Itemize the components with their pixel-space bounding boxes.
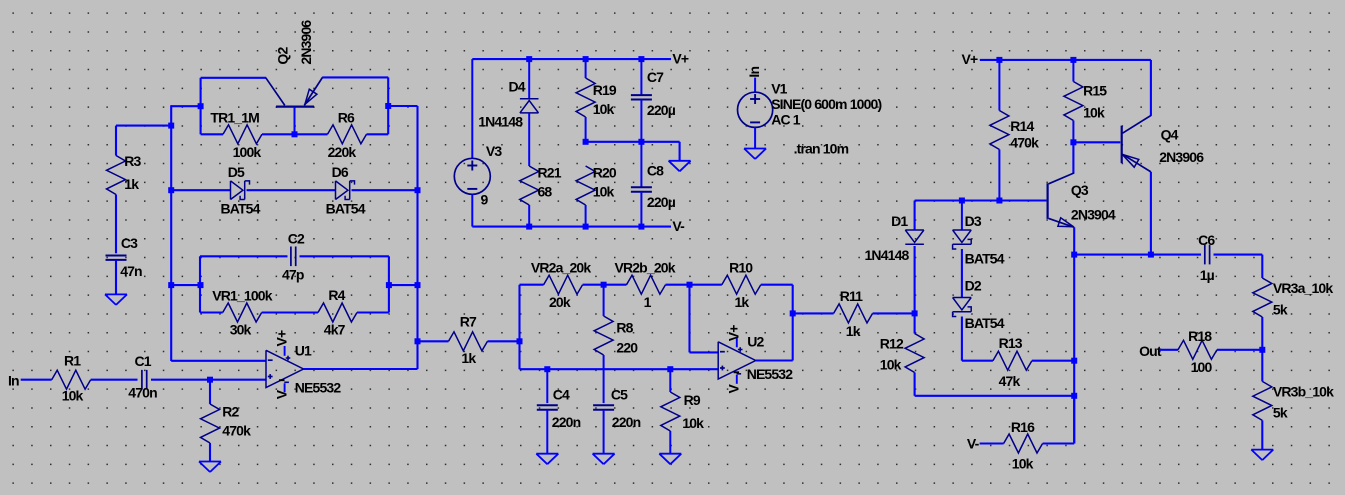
svg-text:9: 9 (481, 191, 489, 207)
svg-text:D5: D5 (228, 164, 245, 180)
svg-text:BAT54: BAT54 (965, 251, 1005, 267)
svg-text:D3: D3 (965, 213, 982, 229)
wire box left (199, 256, 201, 312)
wire (1159, 349, 1178, 351)
resistor R10 (722, 259, 761, 310)
wire (1072, 142, 1074, 173)
wire (690, 351, 719, 353)
wire (793, 312, 834, 314)
wire (300, 255, 389, 257)
ground (744, 149, 766, 160)
svg-text:BAT54: BAT54 (221, 201, 261, 217)
resistor R14 (990, 60, 1039, 201)
svg-text:R4: R4 (328, 287, 345, 303)
junction (996, 198, 1002, 204)
capacitor C2 (282, 231, 305, 283)
junction (168, 187, 174, 193)
svg-text:C4: C4 (553, 387, 570, 403)
wire (914, 201, 916, 231)
resistor R6 (328, 110, 367, 160)
wire (262, 311, 318, 313)
svg-text:R8: R8 (616, 319, 633, 335)
svg-text:220: 220 (616, 340, 638, 356)
svg-text:VR2b_20k: VR2b_20k (615, 259, 676, 275)
wire (21, 379, 52, 381)
resistor R21 (520, 165, 562, 227)
wire (1150, 172, 1152, 255)
junction (583, 224, 589, 230)
voltage source V3 (454, 59, 502, 227)
wire (418, 340, 449, 342)
junction (1259, 347, 1265, 353)
svg-text:220n: 220n (552, 414, 581, 430)
resistor R1 (52, 353, 91, 404)
junction (1070, 57, 1076, 63)
svg-text:47k: 47k (999, 373, 1021, 389)
junction (790, 310, 796, 316)
svg-text:.tran 10m: .tran 10m (794, 141, 849, 157)
wire (915, 199, 1047, 201)
wire (961, 317, 963, 361)
wire (1261, 420, 1263, 449)
wire (115, 260, 117, 295)
svg-text:4k7: 4k7 (324, 321, 346, 337)
wire (1217, 349, 1262, 351)
transistor Q4 2N3906 (1122, 116, 1205, 172)
svg-text:30k: 30k (230, 321, 252, 337)
ground (659, 454, 681, 465)
capacitor C3 (106, 235, 143, 279)
capacitor C6 (1198, 232, 1215, 283)
svg-text:2N3906: 2N3906 (298, 20, 314, 65)
wire (761, 284, 793, 286)
resistor R20 (576, 165, 617, 227)
wire (387, 77, 389, 134)
junction (638, 139, 644, 145)
junction (526, 224, 532, 230)
diode D1 1N4148 (865, 213, 924, 263)
wire (1073, 396, 1075, 444)
svg-text:47p: 47p (282, 267, 304, 283)
ground (669, 161, 691, 172)
svg-text:47n: 47n (120, 263, 142, 279)
junction (583, 56, 589, 62)
svg-text:R13: R13 (999, 335, 1023, 351)
svg-text:NE5532: NE5532 (295, 380, 342, 396)
wire (200, 311, 223, 313)
svg-text:V-: V- (672, 218, 685, 234)
svg-text:D2: D2 (965, 278, 982, 294)
wire (915, 395, 1075, 397)
svg-text:C2: C2 (288, 231, 305, 247)
wire (690, 284, 722, 286)
svg-text:C1: C1 (135, 353, 152, 369)
capacitor C8 (631, 142, 676, 227)
wire filter bottom rail (520, 368, 719, 370)
svg-text:68: 68 (538, 184, 553, 200)
junction (687, 282, 693, 288)
resistor R2 (201, 403, 252, 443)
svg-text:U2: U2 (747, 334, 764, 350)
junction (198, 282, 204, 288)
svg-text:5k: 5k (1273, 405, 1288, 421)
resistor VR3a_10k (1253, 278, 1334, 318)
ground (199, 462, 221, 473)
wire (666, 284, 690, 286)
resistor TR1_1M (210, 110, 262, 160)
svg-text:V+: V+ (962, 51, 978, 67)
wire (1032, 360, 1074, 362)
wire V- rail (472, 226, 671, 228)
svg-text:R19: R19 (593, 82, 617, 98)
svg-text:1: 1 (644, 294, 652, 310)
junction (1070, 139, 1076, 145)
junction (583, 139, 589, 145)
spice directive .tran (794, 141, 849, 157)
resistor R19 (576, 59, 617, 142)
wire (116, 125, 172, 127)
net label V+ right (962, 51, 978, 67)
wire (388, 105, 417, 107)
diode D2 BAT54 (953, 278, 1005, 331)
svg-text:10k: 10k (593, 101, 615, 117)
net label In at V1 (746, 67, 762, 78)
wire (200, 78, 202, 135)
svg-text:20k: 20k (549, 294, 571, 310)
wire (1214, 254, 1263, 256)
svg-text:R3: R3 (124, 153, 141, 169)
capacitor C7 (631, 59, 676, 142)
svg-text:V-: V- (967, 435, 980, 451)
svg-text:C3: C3 (121, 235, 138, 251)
svg-text:VR3a_10k: VR3a_10k (1273, 280, 1333, 296)
resistor R18 (1178, 328, 1217, 375)
svg-text:Q2: Q2 (274, 47, 290, 65)
svg-text:10k: 10k (593, 184, 615, 200)
wire (583, 284, 604, 286)
svg-text:10k: 10k (880, 356, 902, 372)
wire (961, 249, 963, 298)
wire (262, 133, 295, 135)
svg-text:V+: V+ (273, 330, 289, 346)
junction (1071, 358, 1077, 364)
junction (638, 56, 644, 62)
svg-text:1k: 1k (461, 350, 476, 366)
svg-text:TR1_1M: TR1_1M (210, 110, 259, 126)
svg-text:V3: V3 (486, 143, 502, 159)
svg-text:220n: 220n (612, 414, 641, 430)
svg-text:Q4: Q4 (1161, 126, 1179, 142)
resistor R3 (107, 153, 142, 195)
resistor R4 (318, 287, 357, 338)
junction (168, 282, 174, 288)
wire U2 output (756, 359, 793, 361)
wire (352, 189, 418, 191)
wire (679, 142, 681, 161)
junction (1148, 252, 1154, 258)
resistor R16 (1004, 419, 1043, 471)
svg-text:V+: V+ (726, 325, 742, 341)
wire (209, 443, 211, 462)
wire (914, 246, 916, 313)
svg-text:5k: 5k (1273, 302, 1288, 318)
svg-text:C8: C8 (647, 162, 664, 178)
diode D5 BAT54 (221, 164, 261, 216)
op-amp U2 NE5532 (718, 325, 793, 394)
svg-text:BAT54: BAT54 (326, 201, 366, 217)
svg-text:220k: 220k (328, 144, 357, 160)
svg-text:1N4148: 1N4148 (865, 247, 910, 263)
junction (996, 57, 1002, 63)
svg-text:100k: 100k (233, 144, 262, 160)
svg-text:AC 1: AC 1 (771, 112, 801, 128)
wire (792, 285, 794, 361)
svg-text:2N3904: 2N3904 (1071, 206, 1116, 222)
svg-text:2N3906: 2N3906 (1159, 149, 1204, 165)
junction (1071, 393, 1077, 399)
junction (912, 310, 918, 316)
svg-text:470k: 470k (1010, 134, 1039, 150)
wire (1261, 317, 1263, 381)
transistor Q3 2N3904 (1048, 173, 1116, 227)
wire (170, 105, 172, 361)
svg-text:C5: C5 (611, 387, 628, 403)
junction (517, 338, 523, 344)
junction node Q2-base-left (198, 103, 204, 109)
resistor VR2a_20k (531, 259, 591, 310)
capacitor C5 (593, 387, 641, 454)
resistor VR2b_20k (615, 259, 676, 310)
wire V+ rail (472, 58, 671, 60)
svg-text:10k: 10k (62, 387, 84, 403)
wire (1074, 254, 1151, 256)
voltage source V1 (738, 78, 882, 149)
svg-text:R6: R6 (338, 110, 355, 126)
net label In (input) (8, 372, 19, 388)
resistor VR3b_10k (1253, 381, 1334, 420)
svg-text:R18: R18 (1188, 328, 1212, 344)
junction (544, 366, 550, 372)
svg-text:220µ: 220µ (647, 194, 676, 210)
svg-text:In: In (8, 372, 19, 388)
svg-text:R9: R9 (684, 392, 701, 408)
svg-text:R12: R12 (880, 335, 904, 351)
wire (520, 284, 544, 286)
junction (415, 338, 421, 344)
svg-text:SINE(0 600m 1000): SINE(0 600m 1000) (771, 96, 881, 112)
wire (518, 285, 520, 370)
resistor R12 (880, 334, 924, 373)
svg-text:1k: 1k (846, 323, 861, 339)
wire (357, 311, 389, 313)
capacitor C4 (537, 369, 581, 454)
capacitor C1 (128, 353, 157, 401)
junction (601, 282, 607, 288)
net label Out (1139, 343, 1162, 359)
svg-text:R15: R15 (1083, 83, 1107, 99)
junction Q2 base (292, 131, 298, 137)
svg-text:R1: R1 (64, 353, 81, 369)
svg-text:BAT54: BAT54 (965, 315, 1005, 331)
svg-text:R10: R10 (729, 259, 753, 275)
wire Q3 emitter vertical (1073, 227, 1075, 443)
svg-text:V1: V1 (771, 80, 787, 96)
svg-text:Out: Out (1139, 343, 1162, 359)
svg-text:D4: D4 (509, 79, 526, 95)
svg-text:10k: 10k (1012, 455, 1034, 471)
wire (1073, 141, 1120, 143)
svg-text:1µ: 1µ (1200, 267, 1215, 283)
svg-text:C6: C6 (1198, 232, 1215, 248)
resistor R7 (449, 314, 488, 366)
junction (168, 123, 174, 129)
junction (385, 103, 391, 109)
svg-text:1N4148: 1N4148 (478, 114, 523, 130)
resistor R13 (993, 335, 1032, 389)
svg-text:VR1_100k: VR1_100k (212, 288, 272, 304)
wire (247, 189, 336, 191)
wire (209, 380, 211, 404)
svg-text:NE5532: NE5532 (747, 366, 794, 382)
wire V+ rail right (980, 59, 1151, 61)
wire (171, 105, 201, 107)
op-amp U1 NE5532 (266, 330, 341, 399)
resistor R8 (594, 285, 638, 403)
svg-text:R16: R16 (1011, 419, 1035, 435)
junction (415, 187, 421, 193)
junction (526, 56, 532, 62)
wire (488, 340, 520, 342)
wire (1150, 60, 1152, 116)
junction (1071, 252, 1077, 258)
wire (151, 379, 266, 381)
ground (1251, 450, 1273, 461)
resistor R9 (661, 369, 704, 454)
wire (171, 189, 230, 191)
ground (536, 454, 558, 465)
svg-text:R14: R14 (1010, 118, 1034, 134)
junction (415, 282, 421, 288)
resistor R15 (1064, 60, 1107, 142)
wire (1043, 442, 1075, 444)
svg-text:100: 100 (1191, 359, 1213, 375)
wire (873, 312, 915, 314)
wire (295, 133, 328, 135)
svg-text:R21: R21 (538, 165, 562, 181)
svg-text:R20: R20 (593, 165, 617, 181)
svg-text:1k: 1k (124, 176, 139, 192)
svg-text:R11: R11 (840, 288, 863, 304)
wire long vertical (416, 106, 418, 369)
svg-text:220µ: 220µ (647, 102, 676, 118)
wire (115, 195, 117, 254)
svg-text:VR3b_10k: VR3b_10k (1273, 383, 1334, 399)
wire (201, 133, 223, 135)
junction (638, 224, 644, 230)
svg-text:10k: 10k (682, 415, 704, 431)
junction (386, 282, 392, 288)
ground (593, 454, 615, 465)
net label V- (672, 218, 685, 234)
svg-text:In: In (746, 67, 762, 78)
wire mid rail (586, 141, 680, 143)
wire top rail (322, 76, 388, 78)
wire box right (388, 256, 390, 312)
wire (1151, 254, 1201, 256)
wire (980, 442, 1004, 444)
svg-text:470n: 470n (128, 385, 157, 401)
junction (207, 377, 213, 383)
wire (171, 360, 266, 362)
resistor R11 (834, 288, 873, 339)
wire (914, 373, 916, 396)
svg-text:C7: C7 (647, 69, 664, 85)
net label V+ (672, 51, 688, 67)
junction (667, 366, 673, 372)
wire (115, 126, 117, 156)
wire (962, 360, 993, 362)
svg-text:D6: D6 (332, 164, 349, 180)
wire (604, 284, 627, 286)
wire (91, 379, 138, 381)
wire (688, 285, 690, 353)
svg-text:10k: 10k (1083, 104, 1105, 120)
wire (367, 133, 389, 135)
transistor Q2 2N3906 (266, 20, 323, 135)
svg-text:R2: R2 (222, 403, 239, 419)
svg-text:Q3: Q3 (1071, 182, 1089, 198)
wire (914, 313, 916, 333)
junction (959, 198, 965, 204)
diode D4 1N4148 (478, 59, 538, 166)
svg-text:VR2a_20k: VR2a_20k (531, 259, 591, 275)
svg-text:470k: 470k (222, 422, 251, 438)
svg-text:R7: R7 (460, 314, 477, 330)
net label V- at R16 (967, 435, 980, 451)
svg-text:U1: U1 (295, 342, 312, 358)
wire (1261, 255, 1263, 278)
wire (171, 284, 200, 286)
diode D6 BAT54 (326, 164, 366, 216)
ground (105, 294, 127, 305)
wire (200, 255, 288, 257)
diode D3 BAT54 (953, 201, 1005, 267)
wire U1 output (304, 368, 418, 370)
wire top rail (201, 77, 267, 79)
svg-text:D1: D1 (891, 213, 908, 229)
svg-text:V+: V+ (672, 51, 688, 67)
wire (389, 284, 418, 286)
svg-text:1k: 1k (735, 294, 750, 310)
resistor VR1_100k (212, 288, 272, 338)
